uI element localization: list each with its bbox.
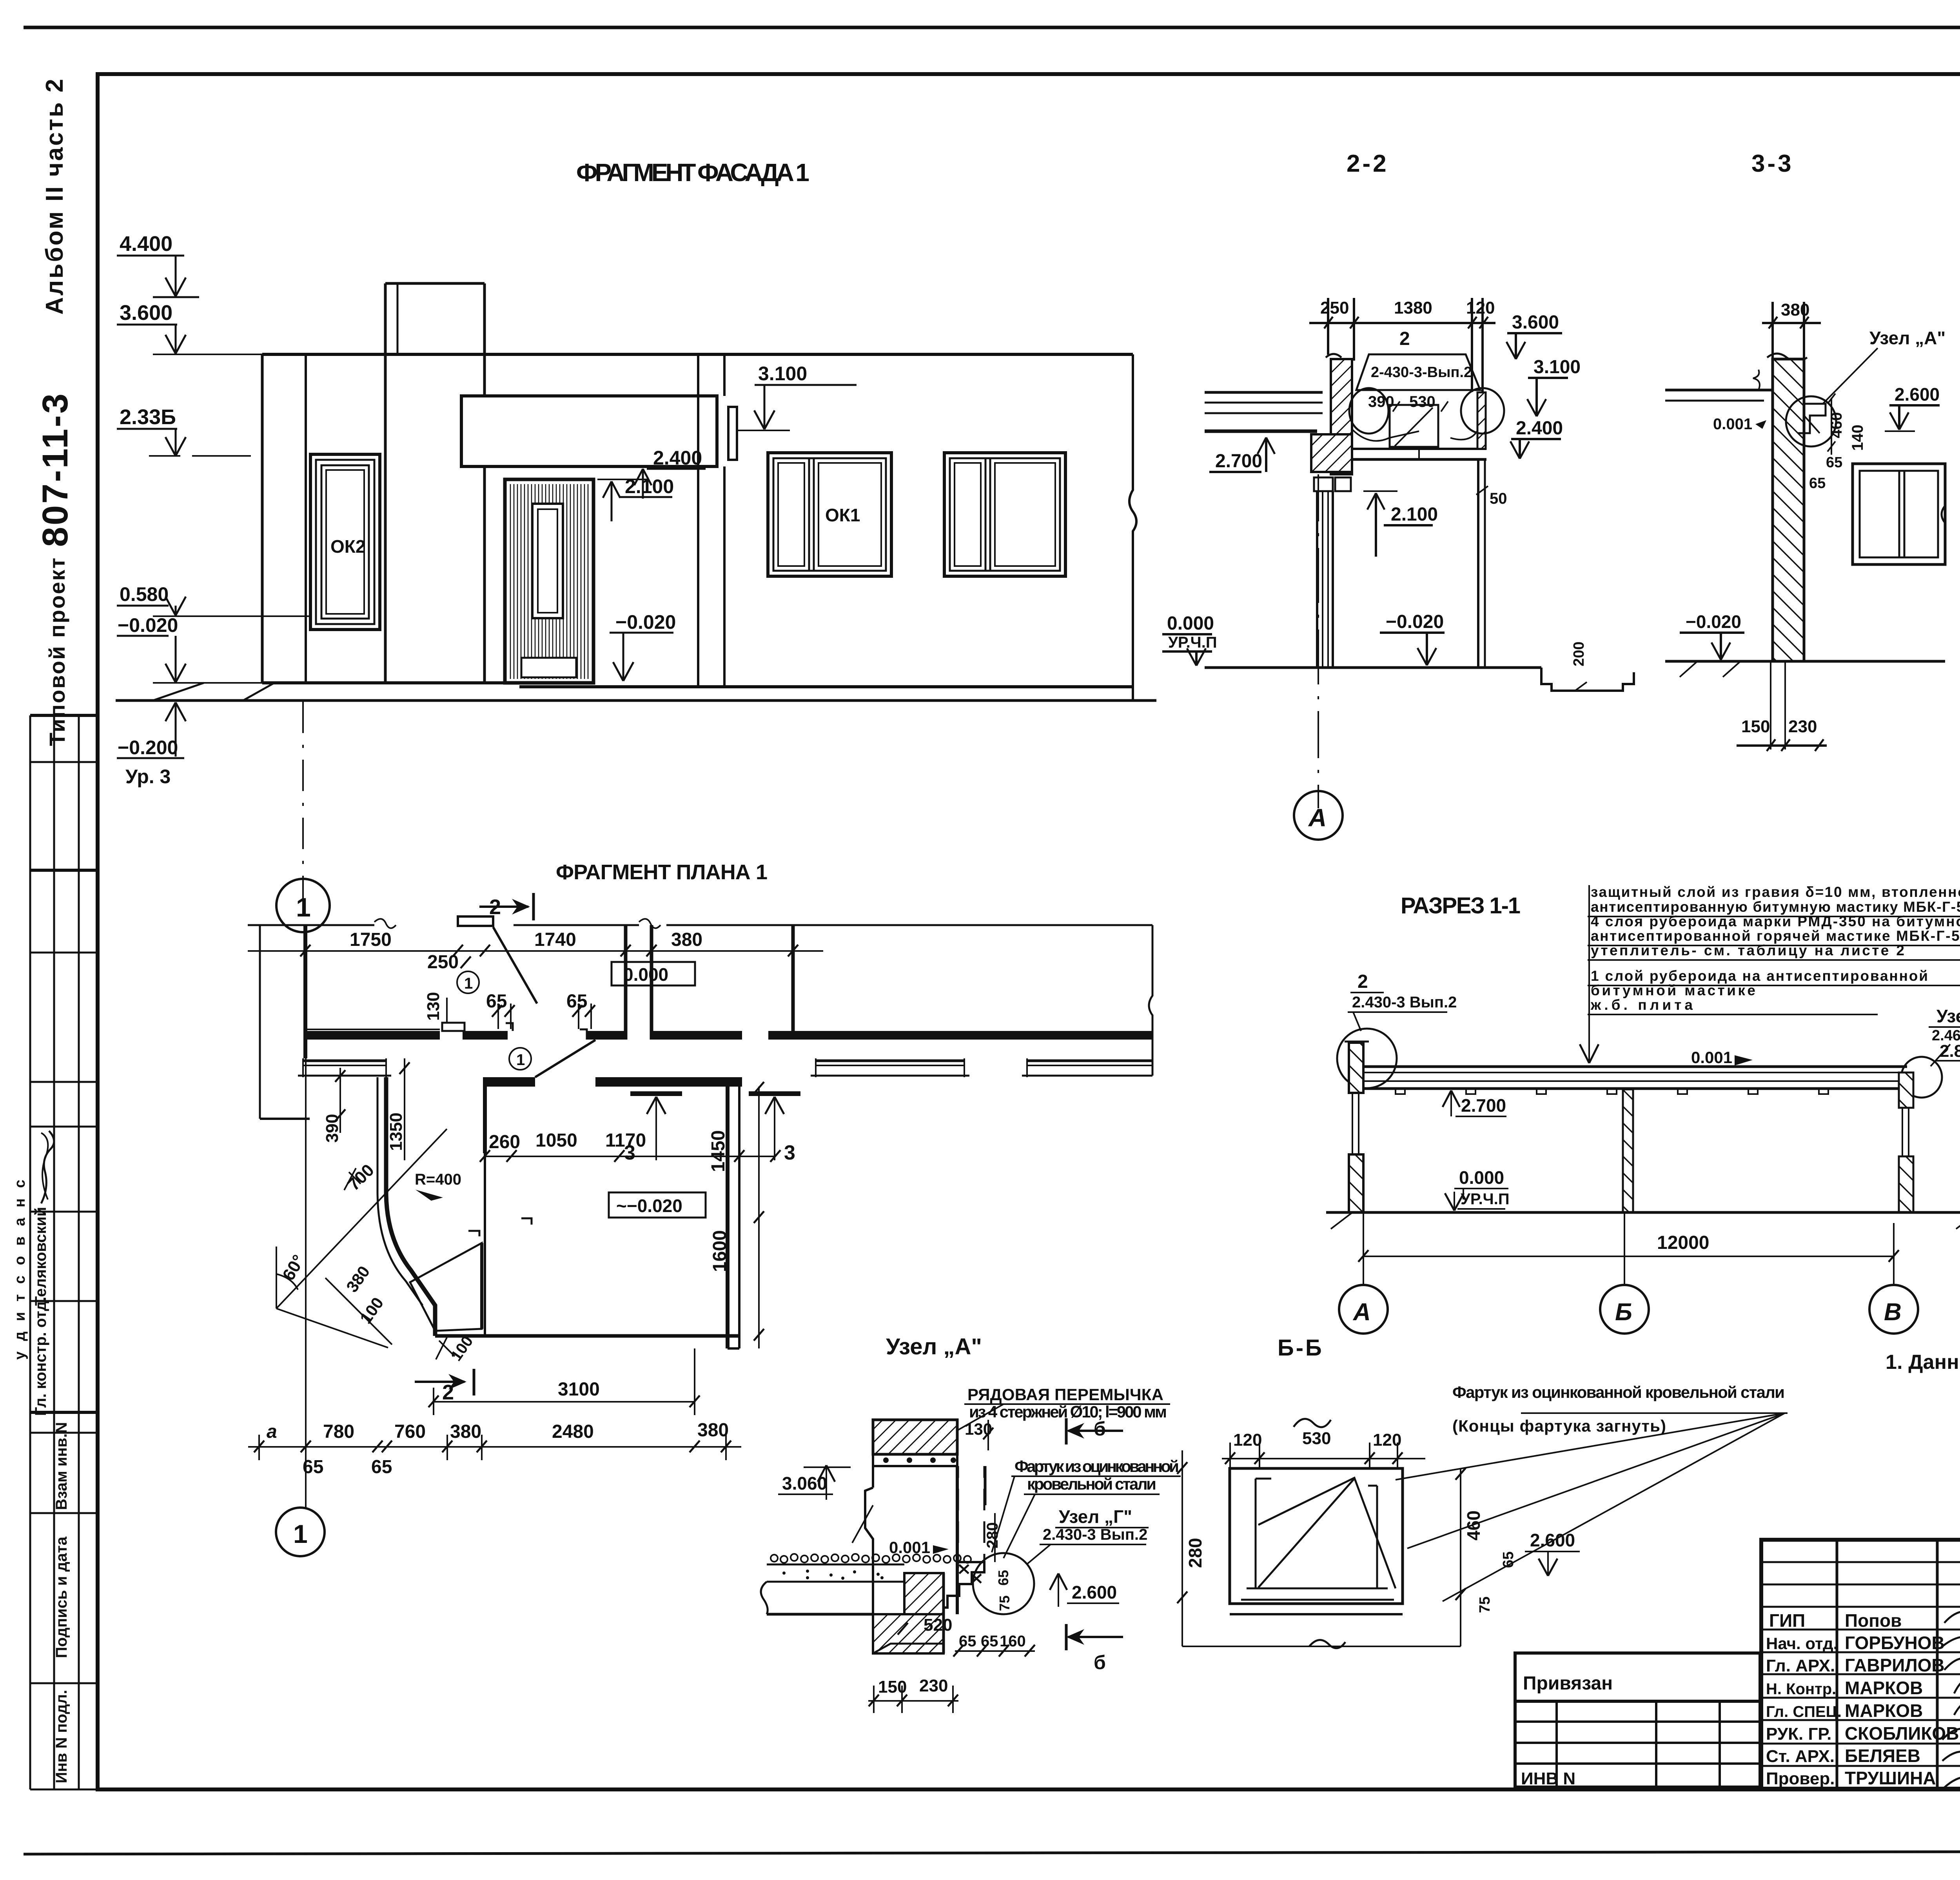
svg-text:2.33Б: 2.33Б <box>120 405 176 429</box>
window mullion below <box>1316 491 1318 666</box>
parapet top line <box>262 353 1133 356</box>
door sill top <box>458 916 493 926</box>
middle wall <box>1623 1089 1633 1212</box>
svg-text:0.000: 0.000 <box>1459 1167 1504 1188</box>
svg-text:380: 380 <box>671 929 702 950</box>
svg-text:0.001: 0.001 <box>1713 416 1752 433</box>
svg-text:1740: 1740 <box>534 929 576 950</box>
svg-text:3.100: 3.100 <box>758 363 807 385</box>
svg-text:130: 130 <box>424 992 443 1021</box>
svg-text:УР.Ч.П: УР.Ч.П <box>1168 634 1217 651</box>
small bracket right of canopy <box>728 407 737 460</box>
svg-text:Ур. 3: Ур. 3 <box>125 766 171 788</box>
svg-text:ТРУШИНА: ТРУШИНА <box>1845 1768 1936 1788</box>
svg-text:380: 380 <box>450 1421 481 1442</box>
wall joint verticals <box>697 354 699 687</box>
узел Б label <box>1932 1006 1960 1061</box>
svg-text:В: В <box>1884 1299 1902 1326</box>
svg-text:−0.020: −0.020 <box>118 614 178 636</box>
svg-text:2: 2 <box>442 1381 454 1404</box>
svg-text:0.000: 0.000 <box>623 964 668 985</box>
svg-text:Гл. СПЕЦ.: Гл. СПЕЦ. <box>1766 1703 1842 1720</box>
svg-text:2-2: 2-2 <box>1347 150 1389 177</box>
svg-text:РУК. ГР.: РУК. ГР. <box>1766 1724 1831 1744</box>
svg-text:Взам инв.N: Взам инв.N <box>53 1422 70 1510</box>
canopy slab over door <box>461 396 717 466</box>
axis А <box>1318 474 1319 808</box>
svg-text:у д и т с о в а н с: у д и т с о в а н с <box>12 1176 28 1359</box>
svg-text:260: 260 <box>489 1132 520 1152</box>
svg-text:280: 280 <box>1185 1538 1205 1568</box>
svg-text:2480: 2480 <box>552 1421 594 1442</box>
svg-text:ГОРБУНОВ: ГОРБУНОВ <box>1845 1633 1945 1653</box>
right windows under band <box>816 1060 964 1062</box>
lower room walls <box>483 1077 487 1153</box>
svg-text:2.100: 2.100 <box>1391 504 1438 525</box>
svg-text:3100: 3100 <box>558 1379 600 1400</box>
svg-text:75: 75 <box>1477 1597 1493 1613</box>
svg-text:3: 3 <box>784 1141 795 1164</box>
0.000 box <box>612 962 695 985</box>
svg-text:1380: 1380 <box>1394 298 1432 318</box>
svg-text:250: 250 <box>1320 298 1349 318</box>
svg-text:2.430-3 Вып.2: 2.430-3 Вып.2 <box>1043 1526 1147 1543</box>
dim texts right side <box>1167 312 1581 651</box>
signature squiggle <box>41 1131 54 1203</box>
rib hooks <box>1396 1089 1828 1094</box>
svg-text:2.430-3 Вып.2: 2.430-3 Вып.2 <box>1352 994 1457 1011</box>
svg-text:380: 380 <box>697 1420 729 1441</box>
svg-text:65: 65 <box>995 1570 1011 1586</box>
svg-text:65: 65 <box>486 991 507 1012</box>
svg-text:160: 160 <box>1000 1633 1026 1650</box>
circled 1s <box>457 971 479 993</box>
svg-text:Провер.: Провер. <box>1766 1769 1835 1788</box>
svg-text:65: 65 <box>1826 454 1842 471</box>
svg-text:4.400: 4.400 <box>120 232 172 256</box>
bottom dims <box>1770 661 1771 749</box>
squiggle top <box>1294 1419 1331 1427</box>
left wall <box>259 925 261 1119</box>
svg-text:200: 200 <box>1571 642 1587 666</box>
ground and step <box>1205 666 1541 669</box>
ground <box>1326 1211 1960 1214</box>
3 marks <box>630 1091 682 1096</box>
svg-text:МАРКОВ: МАРКОВ <box>1845 1678 1923 1698</box>
svg-text:75: 75 <box>996 1595 1013 1611</box>
svg-text:Фартук из оцинкованной: Фартук из оцинкованной <box>1014 1457 1179 1475</box>
svg-text:460: 460 <box>1828 412 1845 438</box>
svg-text:защитный слой из гравия δ=10 м: защитный слой из гравия δ=10 мм, втоплен… <box>1591 884 1960 900</box>
svg-text:−0.020: −0.020 <box>1386 612 1444 632</box>
flashing step black <box>932 1562 984 1608</box>
svg-text:2.400: 2.400 <box>653 447 702 469</box>
svg-text:1750: 1750 <box>350 929 392 950</box>
svg-text:а: а <box>267 1421 277 1442</box>
windows OK1 <box>768 453 891 576</box>
svg-text:Узел „Г": Узел „Г" <box>1059 1506 1132 1527</box>
sash circles <box>1349 388 1388 434</box>
svg-text:ж.б. плита: ж.б. плита <box>1590 997 1693 1013</box>
svg-text:Привязан: Привязан <box>1523 1673 1613 1694</box>
svg-text:ФРАГМЕНТ ФАСАДА 1: ФРАГМЕНТ ФАСАДА 1 <box>576 158 809 187</box>
verticals left part <box>1836 1540 1838 1789</box>
svg-text:БЕЛЯЕВ: БЕЛЯЕВ <box>1845 1746 1920 1766</box>
dims 120 530 120 <box>1233 1429 1401 1450</box>
svg-text:65: 65 <box>566 991 587 1012</box>
svg-text:1: 1 <box>464 975 473 992</box>
svg-text:1450: 1450 <box>708 1130 729 1172</box>
window OK2 <box>310 454 380 630</box>
tower <box>384 283 387 683</box>
svg-text:530: 530 <box>1302 1429 1331 1448</box>
svg-text:1: 1 <box>293 1519 308 1548</box>
svg-text:3.600: 3.600 <box>1512 312 1559 333</box>
svg-text:РЯДОВАЯ ПЕРЕМЫЧКА: РЯДОВАЯ ПЕРЕМЫЧКА <box>967 1385 1163 1404</box>
right break edge <box>1129 354 1136 700</box>
dim texts top <box>350 929 702 1012</box>
svg-text:Попов: Попов <box>1845 1610 1902 1631</box>
top dim line <box>1309 322 1495 324</box>
svg-text:Узел „Б": Узел „Б" <box>1936 1006 1960 1026</box>
top exterior line <box>248 924 1152 926</box>
svg-text:3: 3 <box>624 1141 635 1164</box>
2.100 <box>625 475 674 497</box>
svg-text:120: 120 <box>1466 298 1495 318</box>
right wall <box>1899 1072 1913 1108</box>
shower trapezoid <box>410 1243 482 1331</box>
svg-text:ГИП: ГИП <box>1769 1610 1805 1631</box>
svg-text:460: 460 <box>1463 1510 1484 1541</box>
svg-text:2: 2 <box>1399 328 1410 349</box>
bottom squiggle line <box>1182 1646 1461 1647</box>
svg-text:807-11-3: 807-11-3 <box>35 392 75 547</box>
roof spec text block <box>1590 884 1960 1013</box>
svg-text:из 4 стержней Ø10; l=900 мм: из 4 стержней Ø10; l=900 мм <box>969 1403 1167 1421</box>
2.400 <box>653 447 702 469</box>
svg-text:65: 65 <box>371 1457 392 1477</box>
door <box>505 479 593 683</box>
svg-text:780: 780 <box>323 1421 354 1442</box>
svg-text:Типовой проект: Типовой проект <box>45 557 69 746</box>
svg-text:0.001: 0.001 <box>1691 1048 1732 1067</box>
tower inner edge <box>397 283 399 354</box>
svg-text:Фартук из оцинкованной кровел: Фартук из оцинкованной кровельной стали <box>1452 1383 1785 1401</box>
svg-text:2.700: 2.700 <box>1215 451 1262 472</box>
svg-text:1: 1 <box>516 1051 525 1069</box>
svg-text:антисептированной горячей маст: антисептированной горячей мастике МБК-Г-… <box>1591 928 1960 944</box>
svg-text:1350: 1350 <box>387 1112 406 1151</box>
svg-text:А: А <box>1308 804 1327 832</box>
horizontal rows full left <box>1761 1561 1960 1563</box>
svg-text:3.600: 3.600 <box>120 301 172 325</box>
svg-text:(Концы фартука загнуть): (Концы фартука загнуть) <box>1452 1417 1666 1435</box>
roof slab <box>1349 1065 1907 1068</box>
sheet bottom edge line <box>24 1851 1960 1854</box>
svg-text:65: 65 <box>1809 475 1826 492</box>
svg-text:Ст. АРХ.: Ст. АРХ. <box>1766 1747 1835 1766</box>
60 degree vertex <box>276 1247 277 1308</box>
svg-text:230: 230 <box>1788 717 1817 736</box>
svg-text:150: 150 <box>1741 717 1770 736</box>
svg-text:Гл. констр. отд.: Гл. констр. отд. <box>32 1297 49 1416</box>
svg-text:Узел „А": Узел „А" <box>886 1334 982 1359</box>
lintel hatched <box>873 1420 957 1454</box>
150 230 <box>878 1676 948 1697</box>
svg-text:280: 280 <box>984 1522 1001 1548</box>
svg-text:65: 65 <box>1500 1552 1517 1568</box>
svg-text:2-430-3-Вып.2: 2-430-3-Вып.2 <box>1371 364 1472 381</box>
svg-text:1. Данный лист смотреть совмес: 1. Данный лист смотреть совместно с лист… <box>1886 1351 1960 1374</box>
svg-text:антисептированную битумную мас: антисептированную битумную мастику МБК-Г… <box>1591 899 1960 915</box>
svg-text:2.600: 2.600 <box>1530 1530 1575 1550</box>
svg-text:−0.020: −0.020 <box>1686 612 1741 632</box>
svg-text:1 слой рубероида на антисептир: 1 слой рубероида на антисептированной <box>1591 968 1928 984</box>
diagonal dims 380/100 <box>325 1278 392 1345</box>
svg-text:−0.200: −0.200 <box>118 737 178 759</box>
svg-text:МАРКОВ: МАРКОВ <box>1845 1700 1923 1721</box>
base and ground lines <box>262 681 519 684</box>
curved wall + diagonal <box>386 1077 435 1336</box>
svg-text:−0.020: −0.020 <box>615 611 676 633</box>
facade level marks <box>117 232 857 932</box>
svg-text:Б: Б <box>1615 1299 1632 1326</box>
svg-text:2.600: 2.600 <box>1895 384 1940 405</box>
left wall <box>1345 1041 1369 1043</box>
svg-text:Инв N подл.: Инв N подл. <box>53 1690 70 1784</box>
260 1050 1170 dims <box>489 1130 646 1152</box>
plan right break edge <box>1149 925 1152 1076</box>
svg-text:б: б <box>1094 1651 1106 1673</box>
left sidebar table <box>30 715 98 1789</box>
svg-text:3.100: 3.100 <box>1534 357 1581 377</box>
svg-text:50: 50 <box>1490 490 1507 507</box>
svg-text:1050: 1050 <box>535 1130 577 1151</box>
-0.020 right <box>615 611 676 633</box>
svg-text:СКОБЛИКОВ: СКОБЛИКОВ <box>1845 1723 1959 1744</box>
svg-text:~−0.020: ~−0.020 <box>616 1196 682 1216</box>
texts fartuk <box>1014 1457 1179 1493</box>
3.100 <box>758 363 807 385</box>
svg-text:760: 760 <box>394 1421 426 1442</box>
wall <box>1767 354 1807 361</box>
right wall strip <box>1477 392 1486 449</box>
door leaf diagonal from top wall <box>493 927 537 1004</box>
wall below lintel <box>872 1466 874 1488</box>
roof slab left <box>1665 389 1773 392</box>
svg-text:230: 230 <box>919 1676 948 1695</box>
svg-text:Нач. отд.: Нач. отд. <box>1766 1634 1838 1653</box>
svg-text:520: 520 <box>924 1615 952 1635</box>
svg-text:530: 530 <box>1409 393 1436 410</box>
axis 1 line + circle <box>305 1058 307 1508</box>
lintel slab <box>1352 448 1486 450</box>
-0.020 box <box>609 1192 706 1218</box>
svg-text:1600: 1600 <box>710 1230 730 1272</box>
svg-text:Подпись и дата: Подпись и дата <box>53 1536 70 1658</box>
window plan box <box>1230 1468 1403 1604</box>
svg-text:120: 120 <box>1233 1430 1262 1450</box>
svg-text:0.000: 0.000 <box>1167 613 1214 634</box>
svg-text:3-3: 3-3 <box>1751 150 1794 177</box>
svg-text:2: 2 <box>1357 971 1368 992</box>
svg-text:2.700: 2.700 <box>1461 1095 1506 1116</box>
sheet top edge line <box>24 26 1960 29</box>
axis dim row <box>248 1446 741 1448</box>
svg-text:2.600: 2.600 <box>1072 1582 1117 1602</box>
svg-text:Узел „А": Узел „А" <box>1869 328 1945 348</box>
eave detail near wall <box>1798 404 1826 433</box>
svg-text:ФРАГМЕНТ ПЛАНА 1: ФРАГМЕНТ ПЛАНА 1 <box>556 860 768 884</box>
svg-text:65: 65 <box>981 1633 998 1650</box>
left wall <box>261 354 264 683</box>
band right of wall <box>652 1031 742 1040</box>
svg-text:2.400: 2.400 <box>1516 418 1563 439</box>
top dim line <box>248 950 823 952</box>
svg-text:0.580: 0.580 <box>120 583 169 605</box>
svg-text:ГАВРИЛОВ: ГАВРИЛОВ <box>1845 1655 1945 1675</box>
svg-text:б: б <box>1094 1418 1106 1440</box>
svg-text:R=400: R=400 <box>415 1171 461 1188</box>
title block <box>1761 1540 1960 1789</box>
svg-text:140: 140 <box>1849 425 1866 451</box>
window right <box>1853 464 1945 564</box>
svg-text:Б-Б: Б-Б <box>1278 1335 1324 1361</box>
svg-text:ОК1: ОК1 <box>825 505 860 525</box>
axis circles <box>1339 1285 1388 1334</box>
svg-text:ИНВ N: ИНВ N <box>1521 1769 1575 1788</box>
svg-text:12000: 12000 <box>1657 1232 1709 1253</box>
left roof slab <box>1205 391 1323 394</box>
svg-text:1: 1 <box>296 893 311 922</box>
parapet wall hatched <box>1326 354 1341 357</box>
svg-text:ОК2: ОК2 <box>330 536 365 557</box>
corridor wall band <box>305 1029 440 1030</box>
svg-text:кровельной стали: кровельной стали <box>1027 1475 1156 1493</box>
lower room top band <box>483 1077 535 1087</box>
plan window left <box>303 1060 386 1062</box>
left margin rotated captions <box>35 77 75 746</box>
svg-text:Н. Контр.: Н. Контр. <box>1766 1680 1836 1698</box>
svg-text:Теляковский: Теляковский <box>32 1207 49 1306</box>
svg-text:РАЗРЕЗ 1-1: РАЗРЕЗ 1-1 <box>1401 893 1522 918</box>
privyazan mini-table <box>1515 1653 1760 1787</box>
svg-text:Гл. АРХ.: Гл. АРХ. <box>1766 1656 1835 1675</box>
ground <box>1665 660 1945 663</box>
wall under roof <box>904 1573 944 1614</box>
wall 380 vertical <box>624 925 628 1040</box>
svg-text:Альбом II часть 2: Альбом II часть 2 <box>41 77 68 315</box>
svg-text:380: 380 <box>1781 300 1809 319</box>
svg-text:УР.Ч.П: УР.Ч.П <box>1461 1190 1510 1208</box>
axis 1 <box>302 702 304 899</box>
svg-text:А: А <box>1352 1299 1371 1326</box>
